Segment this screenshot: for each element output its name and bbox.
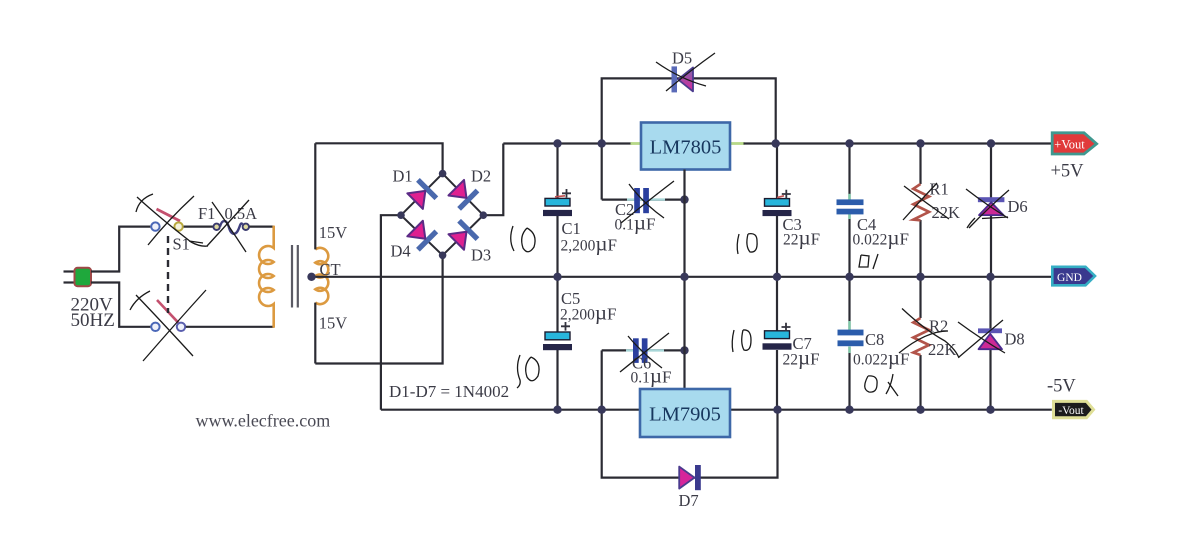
diode D1 bbox=[406, 178, 438, 210]
svg-text:22K: 22K bbox=[928, 340, 957, 359]
node bridge right vertex bbox=[480, 211, 488, 219]
-Vout output tag bbox=[1054, 401, 1094, 417]
svg-text:+Vout: +Vout bbox=[1054, 138, 1085, 152]
capacitor C7 bbox=[763, 277, 792, 410]
capacitor C5 bbox=[543, 277, 572, 410]
resistor R1 bbox=[913, 144, 929, 277]
bridge diamond wires bbox=[401, 174, 483, 256]
junction bottom rail at D8 bbox=[986, 406, 994, 414]
wire D7 bypass loop bbox=[602, 410, 778, 478]
node bridge left vertex bbox=[397, 211, 405, 219]
junction top rail at D6 bbox=[987, 139, 995, 147]
svg-text:F1: F1 bbox=[198, 204, 215, 223]
wire 7905 ground pin bbox=[683, 277, 685, 389]
svg-text:15V: 15V bbox=[319, 314, 348, 333]
diode D3 bbox=[447, 219, 479, 251]
transformer core bbox=[292, 245, 298, 308]
svg-text:C8: C8 bbox=[865, 330, 884, 349]
scribble over diode D5 bbox=[656, 53, 715, 91]
wire 7805 input drop bbox=[601, 144, 603, 200]
diode D4 bbox=[406, 219, 438, 251]
junction top rail at R1 bbox=[916, 139, 924, 147]
junction center rail at C3-C7 bbox=[773, 273, 781, 281]
capacitor C1 bbox=[543, 144, 572, 277]
scribble over resistor R2 bbox=[899, 309, 959, 359]
wire plug to switch S1 top pole bbox=[91, 227, 150, 272]
wire 7905 input rise bbox=[601, 350, 603, 409]
wire top positive rail right segment bbox=[744, 142, 1052, 144]
svg-text:www.elecfree.com: www.elecfree.com bbox=[196, 411, 331, 431]
wire 7805 input lead green bbox=[631, 142, 642, 145]
scribble over switch S1 pole A bbox=[136, 194, 208, 246]
svg-text:D7: D7 bbox=[679, 491, 699, 510]
junction center rail at C1-C5 bbox=[553, 273, 561, 281]
node bridge top vertex bbox=[439, 170, 447, 178]
wire switch to fuse bbox=[184, 226, 213, 228]
svg-text:LM7805: LM7805 bbox=[650, 137, 722, 159]
scribble doodle left of C5 bbox=[517, 355, 539, 388]
transformer T1 secondary winding bbox=[315, 248, 328, 304]
scribble over resistor R1 bbox=[903, 183, 949, 220]
svg-text:+5V: +5V bbox=[1051, 162, 1085, 182]
switch S1 pole A bbox=[151, 209, 183, 231]
label 220V 50HZ bbox=[71, 295, 115, 331]
junction top rail at 7805 input bbox=[598, 139, 606, 147]
wire D5 bypass loop bbox=[602, 78, 776, 143]
capacitor C6 bbox=[633, 338, 648, 363]
node C6 junction bbox=[680, 346, 688, 354]
resistor R2 bbox=[913, 277, 929, 410]
regulator U1 LM7805 bbox=[641, 123, 730, 170]
svg-text:D8: D8 bbox=[1005, 330, 1025, 349]
junction center rail at ground pins bbox=[680, 273, 688, 281]
svg-text:-5V: -5V bbox=[1047, 377, 1076, 397]
diode D5 bbox=[672, 66, 694, 92]
wire switch B to transformer bbox=[186, 326, 274, 328]
capacitor C2 bbox=[634, 188, 649, 213]
svg-text:C5: C5 bbox=[561, 289, 580, 308]
LED D8 bbox=[978, 277, 1002, 410]
AC plug 220V bbox=[64, 268, 92, 286]
switch S1 dashed linkage bbox=[167, 236, 169, 313]
scribble doodle below C4 bbox=[859, 254, 878, 269]
svg-text:D1-D7 = 1N4002: D1-D7 = 1N4002 bbox=[389, 382, 509, 401]
capacitor C8 bbox=[838, 277, 864, 410]
scribble doodle below C8 bbox=[865, 374, 898, 396]
junction bottom rail at 7905 output bbox=[773, 406, 781, 414]
svg-text:R1: R1 bbox=[930, 180, 949, 199]
svg-text:D4: D4 bbox=[391, 242, 411, 261]
svg-text:50HZ: 50HZ bbox=[71, 310, 115, 331]
scribble over switch S1 pole B bbox=[130, 290, 206, 361]
transformer T1 primary winding bbox=[259, 226, 274, 328]
wire bridge right vertex to positive rail bbox=[483, 144, 503, 216]
scribble over fuse F1 bbox=[189, 200, 249, 252]
scribble doodle right of C2 bbox=[737, 234, 757, 254]
wire top positive rail left segment bbox=[503, 142, 632, 144]
wire 7805 ground pin bbox=[683, 170, 685, 277]
junction center rail at R1-R2 bbox=[916, 273, 924, 281]
svg-text:0.5A: 0.5A bbox=[225, 204, 258, 223]
diode D2 bbox=[447, 178, 479, 210]
scribble doodle left of C7 bbox=[732, 330, 751, 352]
wire C2 branch bbox=[602, 199, 685, 201]
switch S1 pole B bbox=[151, 300, 185, 331]
svg-text:-Vout: -Vout bbox=[1058, 405, 1084, 417]
junction bottom rail at 7905 input bbox=[598, 406, 606, 414]
wire plug to switch S1 bottom pole bbox=[91, 283, 150, 327]
junction top rail at C4 bbox=[845, 139, 853, 147]
node bridge bottom vertex bbox=[439, 252, 447, 260]
junction center rail at C4-C8 bbox=[845, 273, 853, 281]
diode D7 bbox=[679, 465, 701, 490]
GND output tag bbox=[1052, 267, 1095, 286]
regulator U2 LM7905 bbox=[640, 389, 730, 437]
junction top rail at C1 bbox=[553, 139, 561, 147]
+Vout output tag bbox=[1052, 133, 1096, 154]
svg-text:D5: D5 bbox=[672, 49, 692, 68]
junction center rail at D6-D8 bbox=[986, 273, 994, 281]
svg-text:22K: 22K bbox=[932, 203, 961, 222]
svg-text:LM7905: LM7905 bbox=[649, 404, 721, 426]
node C2 junction bbox=[680, 195, 688, 203]
wire secondary top lead bbox=[314, 143, 316, 249]
svg-text:D1: D1 bbox=[393, 167, 413, 186]
junction top rail at 7805 output bbox=[772, 139, 780, 147]
wire transformer to bridge top bbox=[315, 143, 442, 173]
svg-text:D6: D6 bbox=[1008, 197, 1028, 216]
capacitor C3 bbox=[763, 144, 792, 277]
wire 7805 output lead green bbox=[730, 142, 745, 145]
junction bottom rail at C5 bbox=[553, 406, 561, 414]
wire bottom negative rail bbox=[381, 409, 1052, 411]
junction bottom rail at C8 bbox=[845, 406, 853, 414]
wire bridge bottom vertex to transformer bbox=[315, 255, 442, 363]
scribble over capacitor C2 bbox=[621, 181, 674, 223]
svg-text:15V: 15V bbox=[319, 223, 348, 242]
wire fuse to transformer bbox=[250, 226, 274, 228]
scribble doodle left of C1 bbox=[511, 226, 535, 252]
LED D6 bbox=[978, 144, 1005, 277]
fuse F1 bbox=[213, 221, 249, 234]
svg-text:D2: D2 bbox=[471, 167, 491, 186]
svg-text:GND: GND bbox=[1057, 272, 1082, 284]
junction bottom rail at R2 bbox=[916, 406, 924, 414]
wire C6 branch bbox=[602, 349, 685, 351]
scribble over LED D6 bbox=[966, 189, 1009, 228]
label F1 0.5A bbox=[198, 204, 257, 223]
wire secondary bottom lead bbox=[314, 303, 316, 364]
capacitor C4 bbox=[837, 144, 864, 277]
scribble over LED D8 bbox=[958, 320, 1005, 357]
scribble over capacitor C6 bbox=[620, 333, 669, 372]
wire center GND rail bbox=[311, 276, 1052, 278]
svg-text:D3: D3 bbox=[471, 246, 491, 265]
node CT junction bbox=[307, 273, 315, 281]
svg-text:C1: C1 bbox=[562, 219, 581, 238]
svg-text:S1: S1 bbox=[173, 235, 190, 254]
wire bridge left vertex to negative rail bbox=[381, 215, 401, 410]
